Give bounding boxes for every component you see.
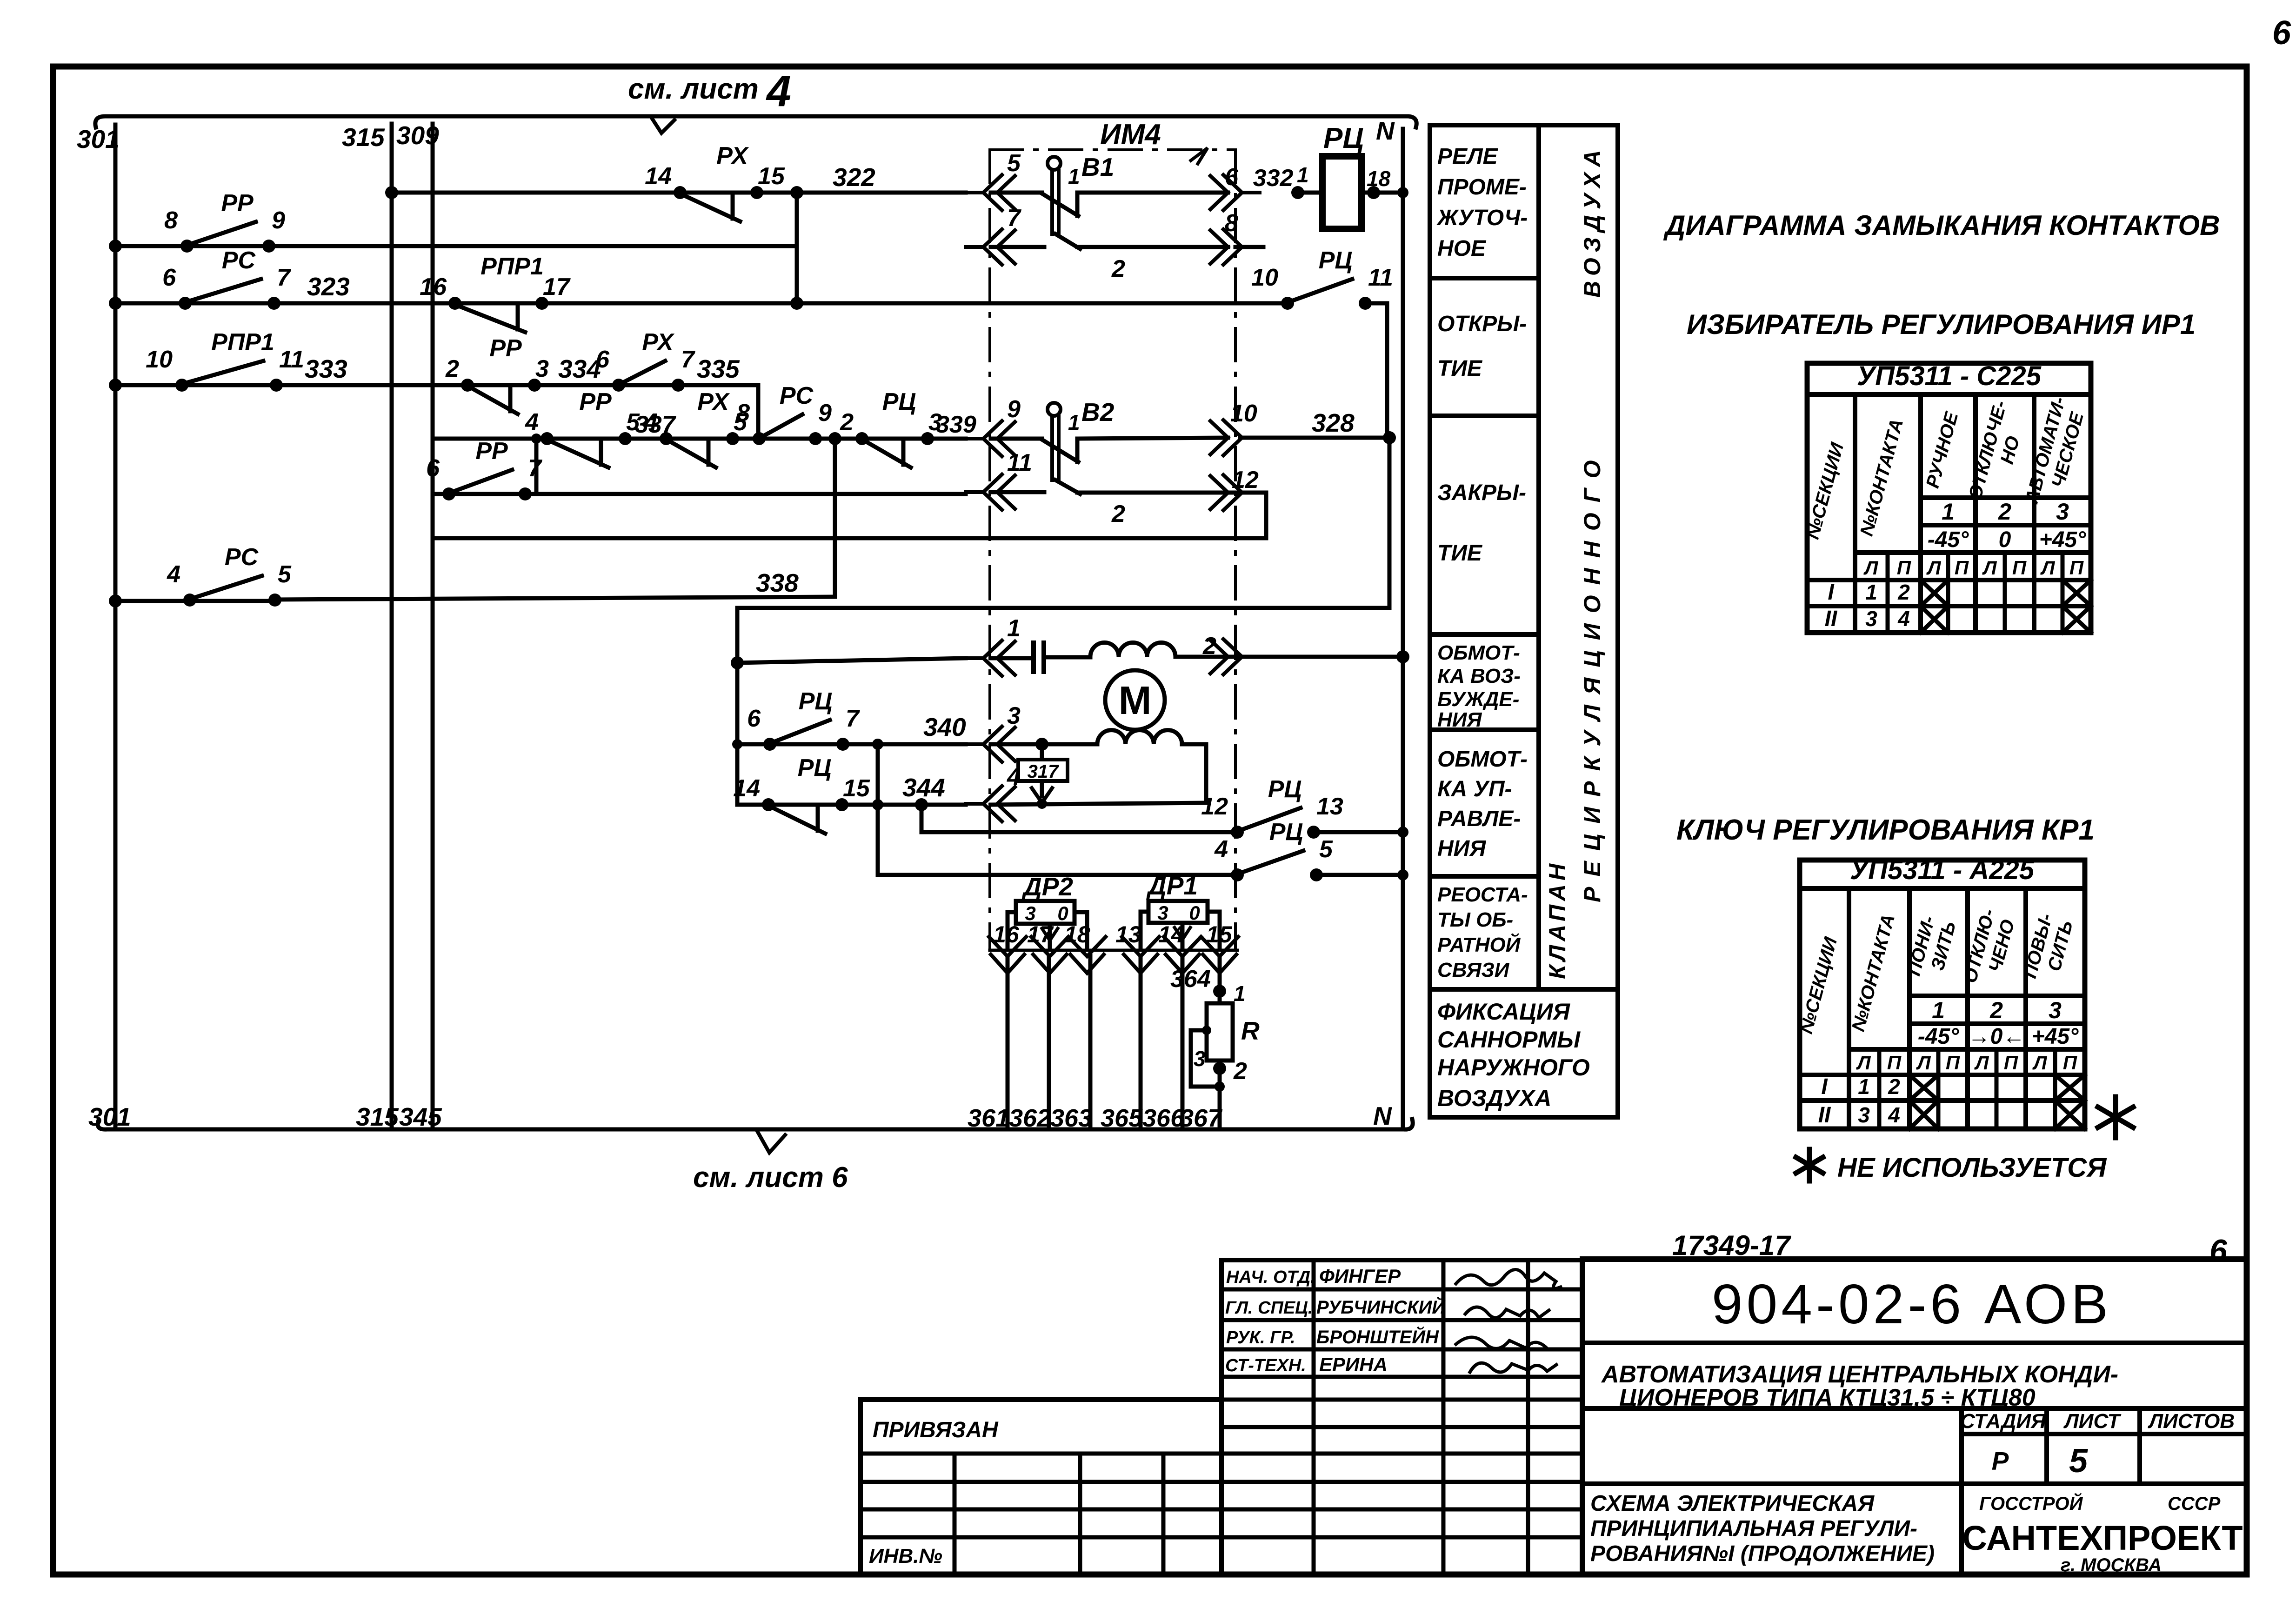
svg-text:ВОЗДУХА: ВОЗДУХА [1437, 1085, 1551, 1111]
motor M [1105, 670, 1165, 730]
svg-text:РР: РР [579, 388, 612, 415]
wire 361 [968, 956, 1009, 1132]
svg-text:П: П [1955, 557, 1969, 579]
contact РР 4-5 [525, 388, 640, 467]
svg-text:Л: Л [1926, 557, 1942, 579]
wire winding return [1182, 744, 1206, 801]
svg-text:333: 333 [305, 354, 347, 383]
svg-text:2: 2 [1111, 255, 1125, 282]
svg-text:РЦ: РЦ [799, 688, 833, 715]
svg-text:10: 10 [1251, 264, 1278, 291]
svg-text:4: 4 [1897, 607, 1910, 631]
wire 362 [1009, 956, 1051, 1132]
svg-text:ГОССТРОЙ: ГОССТРОЙ [1979, 1492, 2083, 1514]
svg-text:РР: РР [475, 438, 508, 465]
names table grid [1221, 1260, 1582, 1574]
svg-text:-45°: -45° [1928, 527, 1969, 552]
svg-text:4: 4 [167, 561, 180, 588]
pin 14 cable arrow down [1158, 921, 1201, 973]
svg-text:ДР2: ДР2 [1021, 872, 1073, 901]
contact РПР1 16-17 [420, 253, 571, 332]
svg-text:7: 7 [277, 264, 291, 291]
svg-text:8: 8 [736, 400, 750, 427]
svg-text:II: II [1818, 1103, 1831, 1127]
svg-text:3: 3 [1007, 702, 1021, 729]
svg-text:366: 366 [1142, 1104, 1185, 1132]
wire 363 [1050, 956, 1092, 1132]
svg-text:323: 323 [307, 272, 350, 301]
contact РХ 6-7 [596, 329, 695, 392]
box label closing [1430, 480, 1539, 634]
svg-text:6: 6 [162, 264, 176, 291]
svg-text:РЦ: РЦ [798, 754, 832, 781]
svg-text:17349-17: 17349-17 [1672, 1230, 1791, 1261]
svg-text:НАРУЖНОГО: НАРУЖНОГО [1437, 1054, 1590, 1081]
pin 18 cable arrow down [1064, 921, 1106, 973]
svg-text:П: П [2069, 557, 2084, 579]
svg-text:1: 1 [1068, 410, 1080, 434]
svg-text:ОБМОТ-: ОБМОТ- [1437, 747, 1528, 772]
wire 337/339 rung [433, 411, 976, 439]
svg-text:Л: Л [1982, 557, 1997, 579]
svg-text:ТИЕ: ТИЕ [1437, 356, 1483, 381]
svg-text:R: R [1241, 1016, 1260, 1045]
node 315 (vertical bus) [342, 123, 399, 1131]
svg-text:РАВЛЕ-: РАВЛЕ- [1437, 807, 1521, 831]
wire rung 4-5 [878, 869, 1408, 881]
text 904-02-6 АОВ [1712, 1273, 2112, 1335]
svg-text:РХ: РХ [716, 142, 749, 169]
pin 8 cable arrow right [1210, 210, 1260, 265]
svg-text:П: П [2004, 1052, 2018, 1074]
label column frame [1430, 125, 1618, 1117]
stage/sheet headers [1960, 1410, 2235, 1480]
svg-text:8: 8 [164, 207, 178, 234]
doc number 17349-17 [1672, 1230, 1791, 1261]
box label opening [1430, 312, 1539, 416]
svg-text:16: 16 [993, 921, 1020, 947]
svg-text:РАТНОЙ: РАТНОЙ [1437, 933, 1521, 956]
boundary dashed line right of IM4 [1234, 150, 1237, 950]
svg-text:301: 301 [77, 125, 120, 153]
inductor excitation winding [1097, 730, 1182, 744]
contact РЦ 4-5 [1214, 819, 1333, 881]
svg-text:9: 9 [818, 400, 832, 427]
svg-text:СТАДИЯ: СТАДИЯ [1960, 1410, 2046, 1433]
svg-text:7: 7 [528, 455, 542, 482]
svg-text:ЗАКРЫ-: ЗАКРЫ- [1437, 480, 1526, 505]
svg-text:КЛАПАН: КЛАПАН [1544, 860, 1570, 979]
title diagram of contact closure [1663, 210, 2220, 241]
inductor upper winding [1090, 642, 1175, 657]
svg-text:0: 0 [1057, 902, 1068, 924]
svg-text:3: 3 [2056, 499, 2069, 525]
svg-text:5: 5 [1007, 150, 1021, 177]
wire 333 rung [109, 354, 758, 392]
svg-text:10: 10 [146, 346, 173, 373]
svg-text:7: 7 [681, 346, 695, 373]
svg-text:КА ВОЗ-: КА ВОЗ- [1437, 665, 1521, 687]
wire 340 rung [732, 713, 966, 749]
pin 5 cable arrow left [966, 150, 1021, 210]
svg-text:РС: РС [225, 544, 259, 571]
svg-text:9: 9 [272, 207, 285, 234]
wire rung 8-9 [109, 240, 797, 253]
boundary dashed line left of IM4 [988, 150, 991, 950]
svg-text:Л: Л [1856, 1052, 1871, 1074]
svg-text:18: 18 [1367, 167, 1391, 191]
svg-text:14: 14 [733, 775, 760, 802]
wire motor armature rung [737, 650, 1409, 663]
subtitle selector IP1 [1687, 309, 2196, 340]
svg-text:10: 10 [1230, 400, 1257, 427]
contact РС 4-5 [167, 544, 292, 607]
svg-text:4: 4 [1007, 764, 1021, 791]
svg-text:344: 344 [902, 773, 945, 802]
svg-text:904-02-6 АОВ: 904-02-6 АОВ [1712, 1273, 2112, 1335]
svg-text:13: 13 [1316, 793, 1343, 820]
svg-text:301: 301 [88, 1102, 131, 1131]
svg-text:1: 1 [1942, 499, 1955, 525]
svg-text:П: П [1897, 557, 1911, 579]
box label outdoor air norm fixing [1437, 999, 1590, 1111]
svg-text:1: 1 [1007, 615, 1021, 642]
svg-text:ИМ4: ИМ4 [1100, 119, 1161, 151]
svg-text:+45°: +45° [2039, 527, 2086, 552]
svg-text:РЕЛЕ: РЕЛЕ [1437, 144, 1499, 169]
wire 366 [1142, 956, 1185, 1132]
svg-text:ЛИСТОВ: ЛИСТОВ [2148, 1410, 2235, 1433]
svg-text:1: 1 [1068, 164, 1080, 188]
svg-text:0: 0 [1999, 527, 2011, 552]
svg-text:→0←: →0← [1968, 1024, 2025, 1049]
svg-text:15: 15 [843, 775, 870, 802]
contact РЦ 10-11 [1251, 247, 1393, 310]
svg-text:БУЖДЕ-: БУЖДЕ- [1437, 688, 1519, 711]
svg-text:СВЯЗИ: СВЯЗИ [1437, 959, 1510, 981]
contact РЦ 2-3 [840, 388, 942, 467]
svg-text:ЖУТОЧ-: ЖУТОЧ- [1436, 206, 1528, 230]
svg-text:М: М [1119, 679, 1152, 723]
wire stub pin8 [1235, 245, 1263, 249]
svg-text:В2: В2 [1081, 398, 1115, 427]
svg-text:СТ-ТЕХН.: СТ-ТЕХН. [1225, 1356, 1306, 1375]
svg-text:1: 1 [1234, 981, 1246, 1006]
svg-text:2: 2 [1202, 633, 1216, 660]
svg-text:328: 328 [1312, 408, 1355, 437]
pin 10 cable arrow right [1210, 400, 1260, 455]
svg-text:6: 6 [1225, 164, 1239, 191]
pin 12 cable arrow right [1210, 467, 1260, 510]
wire 338 rung [109, 568, 835, 607]
node 301 (left bus) [77, 125, 131, 1131]
boundary dashed top of IM4 + label [990, 119, 1235, 164]
svg-text:5: 5 [1319, 836, 1333, 863]
svg-text:2: 2 [1111, 500, 1125, 527]
contact РР 6-7 [426, 438, 542, 500]
box label recirculation air valve (vertical) [1544, 145, 1605, 979]
relay coil РЦ [1253, 122, 1408, 229]
svg-text:НАЧ. ОТД.: НАЧ. ОТД. [1226, 1267, 1315, 1287]
svg-text:15: 15 [1206, 921, 1233, 947]
attach table (Привязан) [861, 1400, 1221, 1574]
svg-text:ГЛ. СПЕЦ.: ГЛ. СПЕЦ. [1225, 1298, 1313, 1318]
svg-text:3: 3 [1157, 902, 1168, 924]
svg-text:362: 362 [1009, 1104, 1051, 1132]
svg-text:2: 2 [1888, 1074, 1900, 1099]
wire B2 lower right to line A [1077, 493, 1266, 538]
svg-text:РЕОСТА-: РЕОСТА- [1437, 883, 1528, 906]
svg-text:Л: Л [2040, 557, 2056, 579]
wire 322 rung [385, 163, 966, 199]
potentiometer ДР1 [1141, 871, 1220, 948]
svg-text:I: I [1821, 1074, 1828, 1099]
contact РХ 14-15 [645, 142, 785, 221]
svg-text:1: 1 [1858, 1074, 1870, 1099]
contact РС 8-9 [736, 382, 832, 445]
svg-text:ПРОМЕ-: ПРОМЕ- [1437, 175, 1527, 200]
wire 11 to node 328 [1365, 303, 1387, 438]
svg-text:315: 315 [342, 123, 385, 152]
svg-text:15: 15 [758, 163, 785, 190]
sheet number 6 [2209, 1233, 2228, 1268]
table УП5311-А225 (КР1) [1796, 855, 2085, 1129]
svg-text:5: 5 [278, 561, 292, 588]
wire riser 1887 [872, 739, 883, 875]
svg-text:365: 365 [1101, 1104, 1143, 1132]
svg-text:ФИКСАЦИЯ: ФИКСАЦИЯ [1437, 999, 1570, 1025]
pin 15 cable arrow down [1201, 921, 1238, 973]
svg-text:РПР1: РПР1 [211, 329, 274, 356]
svg-text:УП5311 - А225: УП5311 - А225 [1850, 855, 2035, 885]
svg-text:ТЫ ОБ-: ТЫ ОБ- [1437, 908, 1513, 931]
svg-text:ИЗБИРАТЕЛЬ РЕГУЛИРОВАНИЯ ИР1: ИЗБИРАТЕЛЬ РЕГУЛИРОВАНИЯ ИР1 [1687, 309, 2196, 340]
pin 3 cable arrow left [966, 702, 1021, 762]
svg-text:6: 6 [2209, 1233, 2228, 1268]
svg-text:309: 309 [396, 121, 439, 150]
wire from sheet 4 (top feeder line) [95, 116, 1416, 127]
box label excitation winding [1430, 641, 1539, 731]
svg-text:РУК. ГР.: РУК. ГР. [1226, 1328, 1295, 1347]
wire rung 12-13 [921, 805, 1408, 838]
svg-text:Л: Л [1916, 1052, 1931, 1074]
pin 6 cable arrow right [1210, 164, 1260, 210]
svg-text:3: 3 [928, 409, 942, 436]
svg-text:Л: Л [1863, 557, 1879, 579]
wire riser 943-1283 [833, 439, 837, 597]
svg-text:9: 9 [1007, 396, 1021, 423]
svg-text:12: 12 [1232, 467, 1259, 494]
svg-text:ФИНГЕР: ФИНГЕР [1319, 1265, 1401, 1287]
box label relay intermediate [1430, 144, 1539, 278]
svg-text:367: 367 [1180, 1104, 1223, 1132]
organisation block [1962, 1492, 2243, 1575]
svg-text:КА УП-: КА УП- [1437, 777, 1512, 801]
svg-text:II: II [1825, 607, 1838, 631]
svg-text:13: 13 [1115, 921, 1141, 947]
svg-text:7: 7 [1007, 205, 1021, 232]
svg-text:РС: РС [780, 382, 814, 409]
subtitle key KP1 [1676, 814, 2095, 846]
svg-text:11: 11 [1007, 449, 1032, 476]
contact РЦ 14-15 [733, 754, 870, 834]
svg-text:ЦИОНЕРОВ ТИПА КТЦ31,5 ÷ КТЦ8: ЦИОНЕРОВ ТИПА КТЦ31,5 ÷ КТЦ80 [1619, 1384, 2036, 1411]
svg-text:7: 7 [846, 705, 860, 732]
svg-text:ИНВ.№: ИНВ.№ [869, 1545, 942, 1568]
star mark not used [1796, 1097, 2133, 1183]
wire 344 rung [737, 773, 966, 805]
wire 367 [1180, 956, 1223, 1132]
svg-text:Л: Л [2032, 1052, 2048, 1074]
svg-text:П: П [2063, 1052, 2077, 1074]
svg-text:3: 3 [1025, 902, 1035, 924]
resistor R [1191, 981, 1260, 1092]
svg-text:4: 4 [766, 67, 791, 116]
switch B1 [991, 153, 1228, 282]
svg-text:3: 3 [2049, 997, 2062, 1023]
svg-text:16: 16 [420, 274, 447, 300]
pin 7 cable arrow left [966, 205, 1021, 265]
svg-text:6: 6 [426, 455, 440, 482]
svg-text:НИЯ: НИЯ [1437, 836, 1486, 861]
svg-text:4: 4 [644, 409, 658, 436]
svg-text:ЕРИНА: ЕРИНА [1319, 1354, 1388, 1375]
contact РЦ 6-7 (340) [747, 688, 860, 751]
svg-text:317: 317 [1028, 761, 1059, 782]
pin 1 cable arrow left [966, 615, 1021, 676]
contact РЦ 12-13 [1201, 776, 1343, 839]
svg-text:РР: РР [221, 190, 254, 217]
svg-text:3: 3 [535, 355, 549, 382]
svg-text:ОТКРЫ-: ОТКРЫ- [1437, 312, 1527, 336]
svg-text:2: 2 [1998, 499, 2011, 525]
wire 365 [1101, 956, 1143, 1132]
svg-text:Р: Р [1992, 1447, 2009, 1475]
svg-text:РОВАНИЯ№I (ПРОДОЛЖЕНИЕ): РОВАНИЯ№I (ПРОДОЛЖЕНИЕ) [1590, 1541, 1935, 1566]
svg-text:N: N [1376, 116, 1395, 145]
svg-text:ВОЗДУХА: ВОЗДУХА [1579, 145, 1605, 298]
contact РС 6-7 [162, 247, 291, 310]
svg-text:РХ: РХ [697, 388, 730, 415]
svg-text:4: 4 [1888, 1103, 1900, 1127]
svg-text:5: 5 [2069, 1442, 2088, 1480]
pin 9 cable arrow left [966, 396, 1021, 456]
svg-text:НЕ ИСПОЛЬЗУЕТСЯ: НЕ ИСПОЛЬЗУЕТСЯ [1837, 1153, 2107, 1183]
svg-text:340: 340 [923, 713, 966, 741]
wire 323 rung [109, 272, 1288, 310]
pin 13 cable arrow down [1115, 921, 1159, 973]
svg-text:4: 4 [1214, 836, 1228, 863]
wire drop 943 to 1062 [531, 434, 541, 494]
contact РПР1 10-11 [146, 329, 304, 392]
svg-text:315: 315 [356, 1102, 399, 1131]
contact РХ 4-5 [644, 388, 748, 467]
svg-text:ОБМОТ-: ОБМОТ- [1437, 641, 1520, 664]
svg-text:11: 11 [1368, 264, 1393, 291]
svg-text:345: 345 [399, 1102, 442, 1131]
svg-text:17: 17 [1027, 921, 1054, 947]
svg-text:3: 3 [1858, 1103, 1870, 1127]
svg-text:НОЕ: НОЕ [1437, 236, 1487, 261]
svg-text:335: 335 [697, 354, 740, 383]
svg-text:Л: Л [1974, 1052, 1989, 1074]
svg-text:НИЯ: НИЯ [1437, 708, 1482, 731]
svg-text:18: 18 [1064, 921, 1090, 947]
potentiometer ДР2 [1008, 872, 1087, 948]
svg-text:332: 332 [1253, 165, 1294, 192]
device 317 feedback element [1018, 744, 1068, 803]
svg-text:17: 17 [543, 274, 571, 300]
table УП5311-С225 (ИР1) [1802, 361, 2091, 633]
title block main box [1582, 1259, 2247, 1574]
box label control winding [1430, 747, 1539, 876]
svg-text:339: 339 [936, 411, 976, 438]
node junction rung943/riser [828, 432, 841, 445]
svg-text:14: 14 [645, 163, 672, 190]
svg-text:363: 363 [1050, 1104, 1092, 1132]
svg-text:СХЕМА ЭЛЕКТРИЧЕСКАЯ: СХЕМА ЭЛЕКТРИЧЕСКАЯ [1590, 1491, 1875, 1516]
svg-text:ПРИНЦИПИАЛЬНАЯ РЕГУЛИ-: ПРИНЦИПИАЛЬНАЯ РЕГУЛИ- [1590, 1516, 1917, 1541]
svg-text:2: 2 [445, 355, 459, 382]
node N (right neutral bus) [1373, 116, 1403, 1130]
svg-text:5: 5 [626, 409, 640, 436]
drawing name text [1590, 1491, 1935, 1566]
wire return line [433, 536, 1266, 540]
svg-text:11: 11 [279, 346, 304, 373]
wire rung344 right part [915, 798, 1206, 811]
svg-text:П: П [1946, 1052, 1960, 1074]
svg-text:3: 3 [1194, 1047, 1206, 1071]
svg-text:6: 6 [2272, 14, 2291, 52]
wire 364 label [1170, 966, 1211, 993]
switch B2 [991, 398, 1228, 527]
svg-text:БРОНШТЕЙН: БРОНШТЕЙН [1316, 1326, 1439, 1347]
svg-text:+45°: +45° [2032, 1024, 2079, 1049]
svg-text:РПР1: РПР1 [481, 253, 544, 280]
svg-text:364: 364 [1170, 966, 1211, 993]
pin 11 cable arrow left [966, 449, 1032, 510]
svg-text:П: П [2012, 557, 2027, 579]
page number 6 top right outside frame [2272, 14, 2291, 52]
svg-text:см. лист 6: см. лист 6 [693, 1161, 848, 1194]
svg-text:4: 4 [525, 409, 539, 436]
svg-text:РЦ: РЦ [1323, 122, 1364, 154]
svg-text:РЦ: РЦ [1268, 776, 1302, 803]
svg-text:РХ: РХ [642, 329, 675, 356]
svg-text:14: 14 [1158, 921, 1184, 947]
svg-text:6: 6 [747, 705, 761, 732]
note see sheet 4 [628, 67, 791, 133]
svg-text:см. лист: см. лист [628, 73, 759, 105]
svg-text:12: 12 [1201, 793, 1228, 820]
svg-text:ТИЕ: ТИЕ [1437, 541, 1483, 566]
svg-text:г. МОСКВА: г. МОСКВА [2061, 1555, 2162, 1575]
svg-text:8: 8 [1225, 210, 1238, 237]
svg-text:САНТЕХПРОЕКТ: САНТЕХПРОЕКТ [1962, 1519, 2243, 1557]
svg-text:САННОРМЫ: САННОРМЫ [1437, 1027, 1581, 1053]
svg-text:РЦ: РЦ [882, 388, 916, 415]
svg-text:СССР: СССР [2168, 1494, 2221, 1514]
svg-text:П: П [1887, 1052, 1902, 1074]
box label feedback rheostats [1437, 883, 1528, 981]
svg-text:322: 322 [833, 163, 875, 192]
wire B2 lower left [991, 490, 1044, 494]
svg-text:1: 1 [1932, 997, 1945, 1023]
svg-text:УП5311 - С225: УП5311 - С225 [1857, 361, 2042, 391]
svg-text:338: 338 [756, 568, 799, 597]
svg-text:2: 2 [840, 409, 854, 436]
wire 328 [731, 408, 1396, 805]
